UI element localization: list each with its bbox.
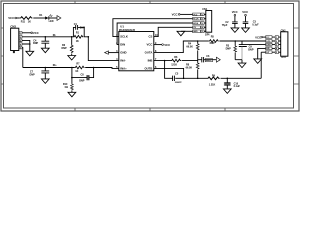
svg-text:LED: LED bbox=[49, 20, 54, 23]
sheet border outer frame bbox=[1, 1, 299, 111]
svg-text:75pF: 75pF bbox=[222, 24, 228, 27]
svg-text:121K: 121K bbox=[171, 64, 177, 67]
svg-text:R11: R11 bbox=[21, 20, 26, 23]
svg-text:VCC: VCC bbox=[146, 43, 152, 47]
border zone ticks left bbox=[1, 28, 4, 84]
svg-text:VCC: VCC bbox=[164, 43, 170, 47]
svg-text:66.5K: 66.5K bbox=[186, 46, 193, 49]
node C8/R7 junction bbox=[93, 67, 95, 69]
svg-text:DIN: DIN bbox=[120, 43, 125, 47]
svg-text:0.1uF: 0.1uF bbox=[252, 24, 259, 27]
capacitor C1 DNP (parallel R1) bbox=[73, 25, 84, 37]
svg-text:VCC: VCC bbox=[33, 31, 39, 35]
capacitor C10 0.1uF bbox=[227, 78, 229, 80]
svg-text:SCLK: SCLK bbox=[120, 35, 128, 39]
resistor R9 1.21K bbox=[207, 77, 220, 80]
capacitor C9 DNP bbox=[239, 41, 266, 47]
border zone ticks top bbox=[75, 1, 225, 4]
ground (C2) bbox=[231, 28, 239, 33]
CN1 pin 2 bbox=[193, 17, 201, 20]
wire R5 to CN2 pin2 bbox=[219, 40, 265, 42]
resistor R5 DNP (series) bbox=[209, 40, 219, 43]
wire R3/C9 join to ground bbox=[235, 60, 242, 63]
svg-text:66.5K: 66.5K bbox=[186, 66, 193, 69]
svg-text:OUT: OUT bbox=[281, 56, 287, 59]
ground (C10) bbox=[223, 89, 231, 94]
CN2 pin 1 bbox=[266, 36, 272, 39]
node VCC (U1 pin9) bbox=[162, 44, 164, 46]
ground (R3/C9) bbox=[238, 63, 246, 68]
svg-text:DNP: DNP bbox=[80, 27, 86, 30]
wire IN+ to U1 pin5 bbox=[85, 67, 119, 70]
sheet border inner frame bbox=[4, 4, 294, 109]
wire OUTB to R9 bbox=[184, 77, 207, 79]
svg-text:1.21K: 1.21K bbox=[209, 84, 216, 87]
svg-text:GND: GND bbox=[193, 31, 198, 33]
wire CN3 pin5 down to IN+ rail bbox=[21, 48, 24, 68]
ground (R3) bbox=[68, 56, 76, 61]
resistor R3 DNP (IN- shunt) bbox=[71, 36, 73, 38]
svg-text:SCLK: SCLK bbox=[193, 19, 199, 21]
capacitor C2 bbox=[232, 16, 238, 28]
svg-text:INA-: INA- bbox=[120, 59, 126, 63]
wire IN+ rail bbox=[23, 67, 75, 69]
wire U1 pin7 INB bbox=[154, 60, 171, 62]
svg-text:1K: 1K bbox=[75, 70, 78, 73]
wire SCLK: CN1 pin2 to U1 pin1 bbox=[113, 19, 193, 37]
ground (C7) bbox=[41, 79, 49, 84]
wire VCC to R11 bbox=[17, 17, 20, 19]
wire IN- to U1 pin4 bbox=[84, 37, 119, 61]
svg-text:680PF: 680PF bbox=[206, 60, 213, 62]
svg-text:DNP: DNP bbox=[62, 47, 68, 50]
wire R9 to CN2 bbox=[221, 77, 262, 79]
CN3 pin 3 box bbox=[19, 39, 22, 42]
svg-text:1K: 1K bbox=[76, 40, 79, 43]
CN2 pin 3 bbox=[266, 43, 272, 46]
svg-text:DNP: DNP bbox=[33, 42, 39, 45]
CN3 pin 1 box bbox=[19, 32, 22, 35]
wire CN1 pin5 to ground bbox=[181, 30, 193, 32]
svg-text:IN+: IN+ bbox=[53, 64, 57, 67]
wire U1 pin6 OUTB down bbox=[154, 68, 184, 78]
svg-text:DNP: DNP bbox=[79, 80, 85, 83]
node IN- to INA- corner bbox=[88, 36, 90, 38]
svg-text:IN-: IN- bbox=[53, 34, 56, 37]
svg-text:VCC: VCC bbox=[255, 35, 261, 39]
ground (R10) bbox=[68, 92, 76, 97]
wire MOSI: CN1 pin3 to U1 pin2 bbox=[117, 23, 193, 45]
resistor R4 66.5K bbox=[197, 41, 199, 43]
capacitor C6 680pF bbox=[198, 57, 217, 62]
wire CN3 pin1 to VCC bbox=[22, 32, 31, 34]
wire CS: U1 pin10 to CN1 pin4 bbox=[154, 27, 193, 36]
svg-text:VCC: VCC bbox=[232, 10, 238, 14]
CN2 pin 4 bbox=[266, 47, 272, 50]
svg-text:SPI: SPI bbox=[205, 33, 210, 37]
resistor R10 0 ohm (IN+ shunt) bbox=[71, 67, 73, 69]
ground (C3) bbox=[242, 28, 250, 33]
border zone ticks right bbox=[294, 28, 300, 84]
svg-text:0.1uF: 0.1uF bbox=[234, 85, 241, 88]
svg-text:OUTB: OUTB bbox=[144, 66, 152, 70]
CN2 pin 2 bbox=[266, 40, 272, 43]
wire CN2 pin5 to OUT net bbox=[261, 51, 265, 53]
ground (CN1) bbox=[177, 31, 185, 36]
svg-text:INA+: INA+ bbox=[120, 66, 127, 70]
CN1 pin 3 bbox=[193, 22, 201, 25]
svg-text:0Ω: 0Ω bbox=[65, 86, 68, 89]
svg-text:CS: CS bbox=[149, 35, 153, 39]
svg-text:DNP: DNP bbox=[30, 73, 36, 76]
svg-text:VCC: VCC bbox=[172, 13, 178, 17]
ground (CN3) bbox=[26, 51, 34, 56]
off-page arrow (U1 pin3 GND) bbox=[105, 51, 109, 54]
svg-text:DNP: DNP bbox=[226, 48, 232, 51]
ground (CN2) bbox=[254, 59, 262, 64]
capacitor C3 bbox=[243, 16, 249, 28]
svg-text:VCC: VCC bbox=[193, 14, 198, 16]
off-page arrow (C6 out) bbox=[216, 57, 220, 62]
wire IN- rail bbox=[22, 36, 73, 38]
node INB bbox=[164, 60, 166, 62]
svg-text:MOSI: MOSI bbox=[193, 23, 199, 25]
svg-text:VCC: VCC bbox=[8, 16, 14, 20]
wire OUTA rail to R5 bbox=[198, 40, 209, 42]
svg-text:GND: GND bbox=[120, 51, 126, 55]
wire CN3 pins 3,4 to ground bbox=[22, 40, 30, 51]
CN3 pin 2 box bbox=[19, 36, 22, 39]
capacitor C4 DNP bbox=[45, 36, 47, 38]
wire arrow to U1 pin3 bbox=[108, 52, 118, 54]
svg-text:1K: 1K bbox=[28, 20, 31, 23]
CN3 pin 5 box bbox=[19, 46, 22, 49]
node OUTA rail bbox=[197, 40, 199, 42]
border zone ticks bottom bbox=[75, 108, 225, 111]
wire U1 pin9 to VCC bbox=[154, 44, 162, 46]
svg-text:VCC: VCC bbox=[242, 10, 248, 14]
resistor R7 (IN+ series) bbox=[75, 66, 85, 69]
ground (C4) bbox=[41, 48, 49, 53]
CN3 pin 4 box bbox=[19, 43, 22, 46]
off-page arrow (LED net) bbox=[57, 16, 61, 21]
svg-text:OUTA: OUTA bbox=[145, 51, 153, 55]
wire U1 pin8 OUTA up to rail bbox=[154, 41, 198, 53]
resistor R3 DNP (OUTA shunt) bbox=[234, 40, 236, 42]
wire OUT up to CN2 pin5 bbox=[260, 52, 262, 78]
svg-text:INB: INB bbox=[148, 59, 153, 63]
svg-text:2200PF: 2200PF bbox=[175, 82, 183, 84]
resistor R8 66.5K bbox=[196, 62, 199, 69]
wire CN2 pin4 to ground bbox=[258, 48, 266, 59]
wire R11 to D1 bbox=[33, 17, 45, 19]
CN2 pin 5 bbox=[266, 51, 272, 54]
capacitor C8 DNP (parallel R7) bbox=[71, 77, 73, 79]
resistor R1 (IN- series) bbox=[73, 35, 83, 38]
CN1 pin 4 bbox=[193, 26, 201, 29]
diode D1 LED bbox=[45, 16, 48, 19]
wire R4 to R8 node bbox=[197, 51, 199, 63]
svg-text:DNP: DNP bbox=[210, 42, 216, 45]
resistor R11 bbox=[20, 17, 33, 20]
svg-text:DNP: DNP bbox=[248, 49, 254, 52]
svg-text:OUT: OUT bbox=[266, 52, 269, 54]
capacitor C7 DNP bbox=[45, 67, 47, 69]
node VCC (CN3 pin1) bbox=[31, 32, 33, 34]
capacitor C5 2200pF (feedback) bbox=[165, 61, 184, 81]
wire D1 to off-page arrow bbox=[49, 17, 57, 19]
CN1 pin 5 bbox=[193, 30, 201, 33]
resistor R6 121K bbox=[171, 59, 181, 62]
CN1 pin 1 bbox=[193, 13, 201, 16]
